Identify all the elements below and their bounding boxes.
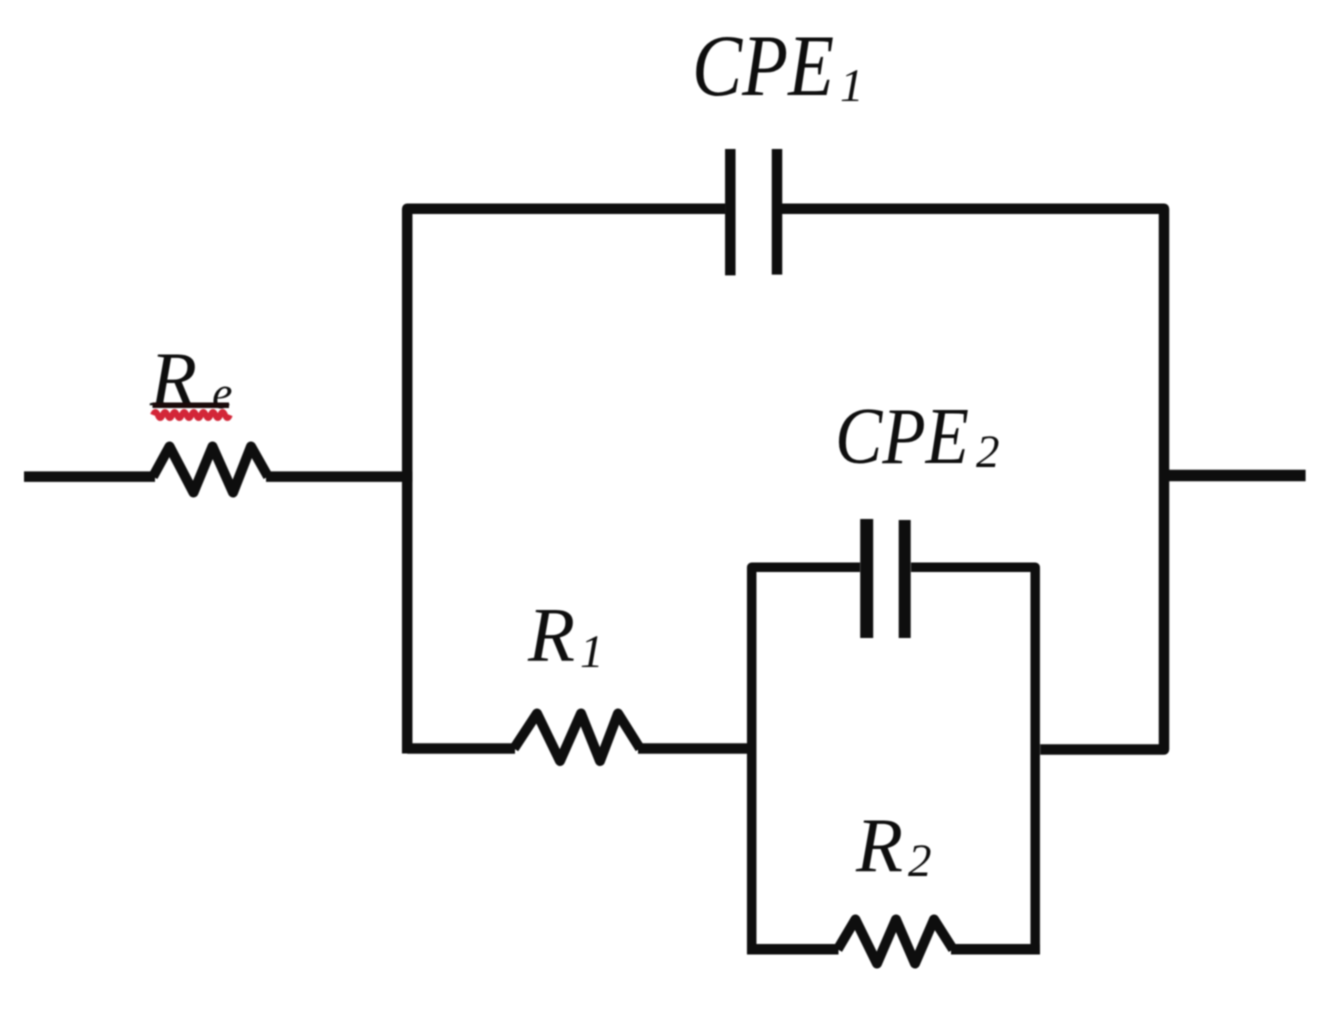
- wire: Re to node A: [266, 471, 413, 482]
- svg-text:CPE: CPE: [835, 393, 969, 481]
- wire: inner box bottom-right segment: [951, 944, 1040, 955]
- svg-text:2: 2: [976, 426, 1000, 478]
- wire: inner box left vertical and top-left segment: [752, 567, 860, 954]
- wire: inner box top-right segment and right vertical: [911, 567, 1035, 954]
- wire: left input lead: [24, 471, 155, 482]
- wire: R1 to inner box node B: [638, 743, 756, 754]
- capacitor CPE1 plate 1: [725, 149, 736, 275]
- resistor Re zigzag body: [153, 447, 268, 493]
- wire: right output lead: [1164, 470, 1306, 482]
- svg-text:1: 1: [840, 60, 864, 112]
- wire: left vertical riser and top rail left segment: [407, 209, 725, 754]
- svg-text:R: R: [527, 592, 575, 678]
- wire: bottom branch from node A to R1: [407, 743, 515, 754]
- resistor R1 zigzag body: [514, 714, 640, 762]
- capacitor CPE2 plate 2: [899, 520, 911, 638]
- resistor R2 zigzag body: [838, 920, 953, 964]
- wire: inner box bottom-left segment: [747, 944, 839, 955]
- svg-text:CPE: CPE: [692, 18, 834, 115]
- label Re red wavy spellcheck underline: [153, 412, 230, 418]
- wire: top rail right segment and right vertical riser: [782, 209, 1164, 750]
- svg-text:2: 2: [908, 835, 932, 887]
- svg-text:1: 1: [580, 626, 604, 678]
- capacitor CPE2 plate 1: [860, 519, 873, 638]
- label Re black underline: [153, 403, 230, 409]
- capacitor CPE1 plate 2: [772, 149, 783, 275]
- svg-text:R: R: [855, 802, 903, 888]
